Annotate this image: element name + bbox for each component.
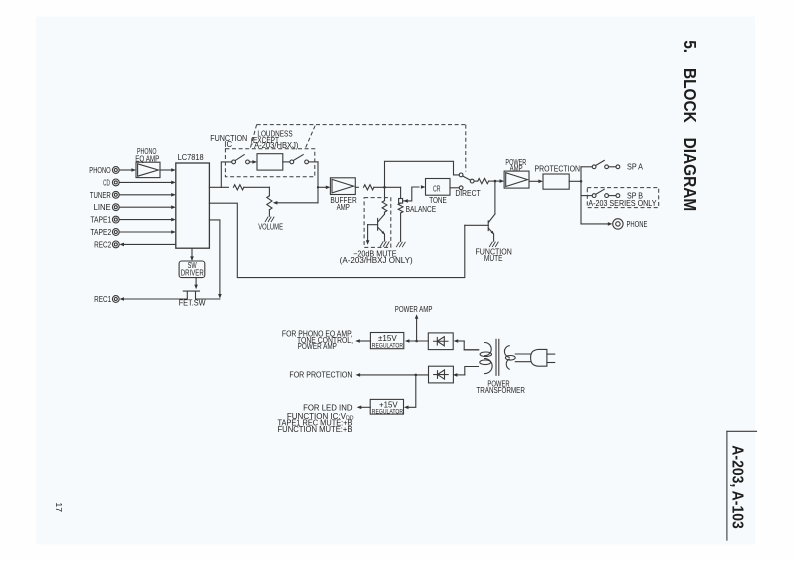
svg-text:REGULATOR: REGULATOR: [372, 344, 404, 350]
svg-text:17: 17: [54, 502, 64, 512]
svg-text:IC: IC: [224, 140, 232, 149]
svg-text:TRANSFORMER: TRANSFORMER: [476, 386, 525, 395]
svg-text:LC7818: LC7818: [178, 153, 205, 162]
svg-text:A-203, A-103: A-203, A-103: [729, 445, 746, 529]
svg-text:VOLUME: VOLUME: [258, 222, 283, 231]
svg-text:(A-203/HBXJ ONLY): (A-203/HBXJ ONLY): [340, 256, 413, 265]
svg-text:AMP: AMP: [510, 164, 523, 173]
svg-text:A-203/HBXJ): A-203/HBXJ): [254, 141, 299, 150]
svg-text:±15V: ±15V: [378, 334, 397, 343]
svg-text:MUTE: MUTE: [484, 254, 503, 263]
svg-text:REC2: REC2: [94, 240, 112, 249]
svg-text:FOR PROTECTION: FOR PROTECTION: [289, 370, 352, 379]
svg-text:SP A: SP A: [627, 163, 644, 172]
svg-text:DRIVER: DRIVER: [181, 269, 204, 278]
svg-text:PROTECTION: PROTECTION: [535, 164, 581, 173]
svg-text:FUNCTION MUTE:+B: FUNCTION MUTE:+B: [278, 425, 353, 434]
svg-text:FET.SW: FET.SW: [179, 299, 206, 308]
svg-text:BALANCE: BALANCE: [406, 205, 437, 214]
svg-text:EQ AMP: EQ AMP: [135, 154, 159, 163]
svg-text:TAPE2: TAPE2: [90, 228, 111, 237]
svg-text:CD: CD: [103, 178, 110, 187]
svg-text:PHONO: PHONO: [89, 166, 110, 175]
svg-text:TAPE1: TAPE1: [90, 216, 111, 225]
svg-text:DIRECT: DIRECT: [455, 189, 480, 198]
svg-text:CR: CR: [433, 184, 441, 193]
svg-text:REGULATOR: REGULATOR: [372, 409, 404, 415]
svg-text:TONE: TONE: [429, 196, 447, 205]
svg-text:PHONE: PHONE: [627, 220, 648, 229]
svg-text:LINE: LINE: [94, 203, 111, 212]
svg-text:5. BLOCK DIAGRAM: 5. BLOCK DIAGRAM: [680, 40, 700, 211]
svg-text:POWER AMP: POWER AMP: [395, 305, 433, 314]
svg-text:+15V: +15V: [379, 401, 398, 410]
svg-text:AMP: AMP: [337, 203, 350, 212]
svg-text:A-203 SERIES ONLY: A-203 SERIES ONLY: [588, 199, 657, 208]
svg-text:TUNER: TUNER: [90, 191, 111, 200]
svg-text:POWER AMP: POWER AMP: [298, 342, 337, 351]
svg-text:REC1: REC1: [94, 295, 112, 304]
